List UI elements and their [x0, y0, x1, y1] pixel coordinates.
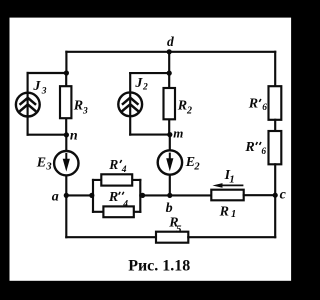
- svg-text:1: 1: [231, 209, 236, 220]
- source E2: [169, 135, 171, 196]
- wire a down: [65, 195, 67, 237]
- svg-text:3: 3: [41, 87, 47, 97]
- svg-text:6: 6: [261, 147, 266, 157]
- node block right: [140, 193, 145, 198]
- node left junction: [64, 70, 69, 75]
- wire block to b to R1: [140, 194, 211, 196]
- wire J3 top horizontal: [28, 72, 67, 74]
- wire n bottom horizontal: [28, 134, 67, 136]
- wire R''6 to c: [274, 164, 276, 195]
- wire J3 vertical through source: [27, 73, 29, 135]
- current source J3: [16, 93, 40, 117]
- resistor R1: [211, 190, 243, 201]
- wire c down: [274, 195, 276, 237]
- resistor R3: [65, 73, 67, 135]
- resistor R'4: [93, 179, 140, 181]
- resistor R2: [168, 73, 170, 135]
- svg-text:1: 1: [229, 174, 235, 186]
- wire top rail d: [66, 51, 275, 53]
- resistor R''6: [269, 131, 282, 164]
- wire bottom rail left: [66, 236, 156, 238]
- arrow E3: [65, 153, 67, 161]
- current source J2: [118, 92, 142, 116]
- current arrow I1: [220, 184, 243, 186]
- node d: [167, 49, 172, 54]
- svg-text:R: R: [177, 98, 187, 113]
- svg-text:5: 5: [176, 223, 182, 235]
- svg-text:2: 2: [142, 82, 148, 92]
- wire bottom rail right: [188, 236, 275, 238]
- primes R''4: [119, 192, 124, 195]
- resistor R''4: [93, 211, 140, 213]
- prime R'4: [120, 160, 122, 163]
- arrow E2: [169, 153, 171, 161]
- svg-text:R: R: [219, 204, 229, 219]
- node n: [64, 132, 69, 137]
- svg-text:n: n: [70, 129, 78, 144]
- node J2 junction: [167, 71, 172, 76]
- resistor R5: [156, 232, 188, 243]
- node b: [167, 193, 172, 198]
- wire right top vertical: [274, 52, 276, 86]
- svg-text:2: 2: [193, 161, 200, 172]
- svg-text:E: E: [36, 155, 46, 170]
- svg-text:3: 3: [45, 162, 51, 173]
- svg-text:R: R: [108, 157, 118, 172]
- arrow head I1: [212, 183, 222, 188]
- wire J2 vertical through source: [129, 73, 131, 135]
- svg-text:R: R: [244, 140, 254, 155]
- svg-text:4: 4: [122, 200, 128, 210]
- node c: [273, 193, 278, 198]
- prime R'6: [259, 99, 261, 102]
- parallel block verticals: [93, 180, 140, 212]
- svg-text:J: J: [32, 79, 41, 94]
- svg-text:d: d: [167, 34, 174, 49]
- svg-text:R: R: [248, 97, 258, 112]
- wire between R'6 R''6: [274, 120, 276, 131]
- primes R''6: [256, 142, 261, 145]
- wire J2 top horizontal: [130, 72, 169, 74]
- wire m bottom horizontal: [130, 134, 170, 136]
- svg-text:R: R: [108, 190, 118, 205]
- svg-text:6: 6: [262, 103, 267, 113]
- node m: [167, 132, 172, 137]
- wire d vertical: [168, 52, 170, 73]
- svg-text:a: a: [52, 189, 59, 204]
- svg-text:R: R: [73, 98, 83, 113]
- svg-text:Рис. 1.18: Рис. 1.18: [128, 258, 190, 275]
- node a: [64, 193, 69, 198]
- wire a to parallel block: [66, 194, 93, 196]
- wire left top vertical: [65, 52, 67, 73]
- svg-text:c: c: [280, 187, 287, 202]
- source E3: [65, 135, 67, 196]
- svg-text:4: 4: [121, 165, 127, 175]
- svg-text:2: 2: [186, 106, 192, 117]
- wire R1 to c: [244, 194, 276, 196]
- svg-text:3: 3: [82, 107, 88, 117]
- svg-text:m: m: [173, 126, 183, 141]
- node block left: [89, 193, 94, 198]
- svg-text:b: b: [166, 201, 173, 216]
- resistor R'6: [269, 86, 282, 120]
